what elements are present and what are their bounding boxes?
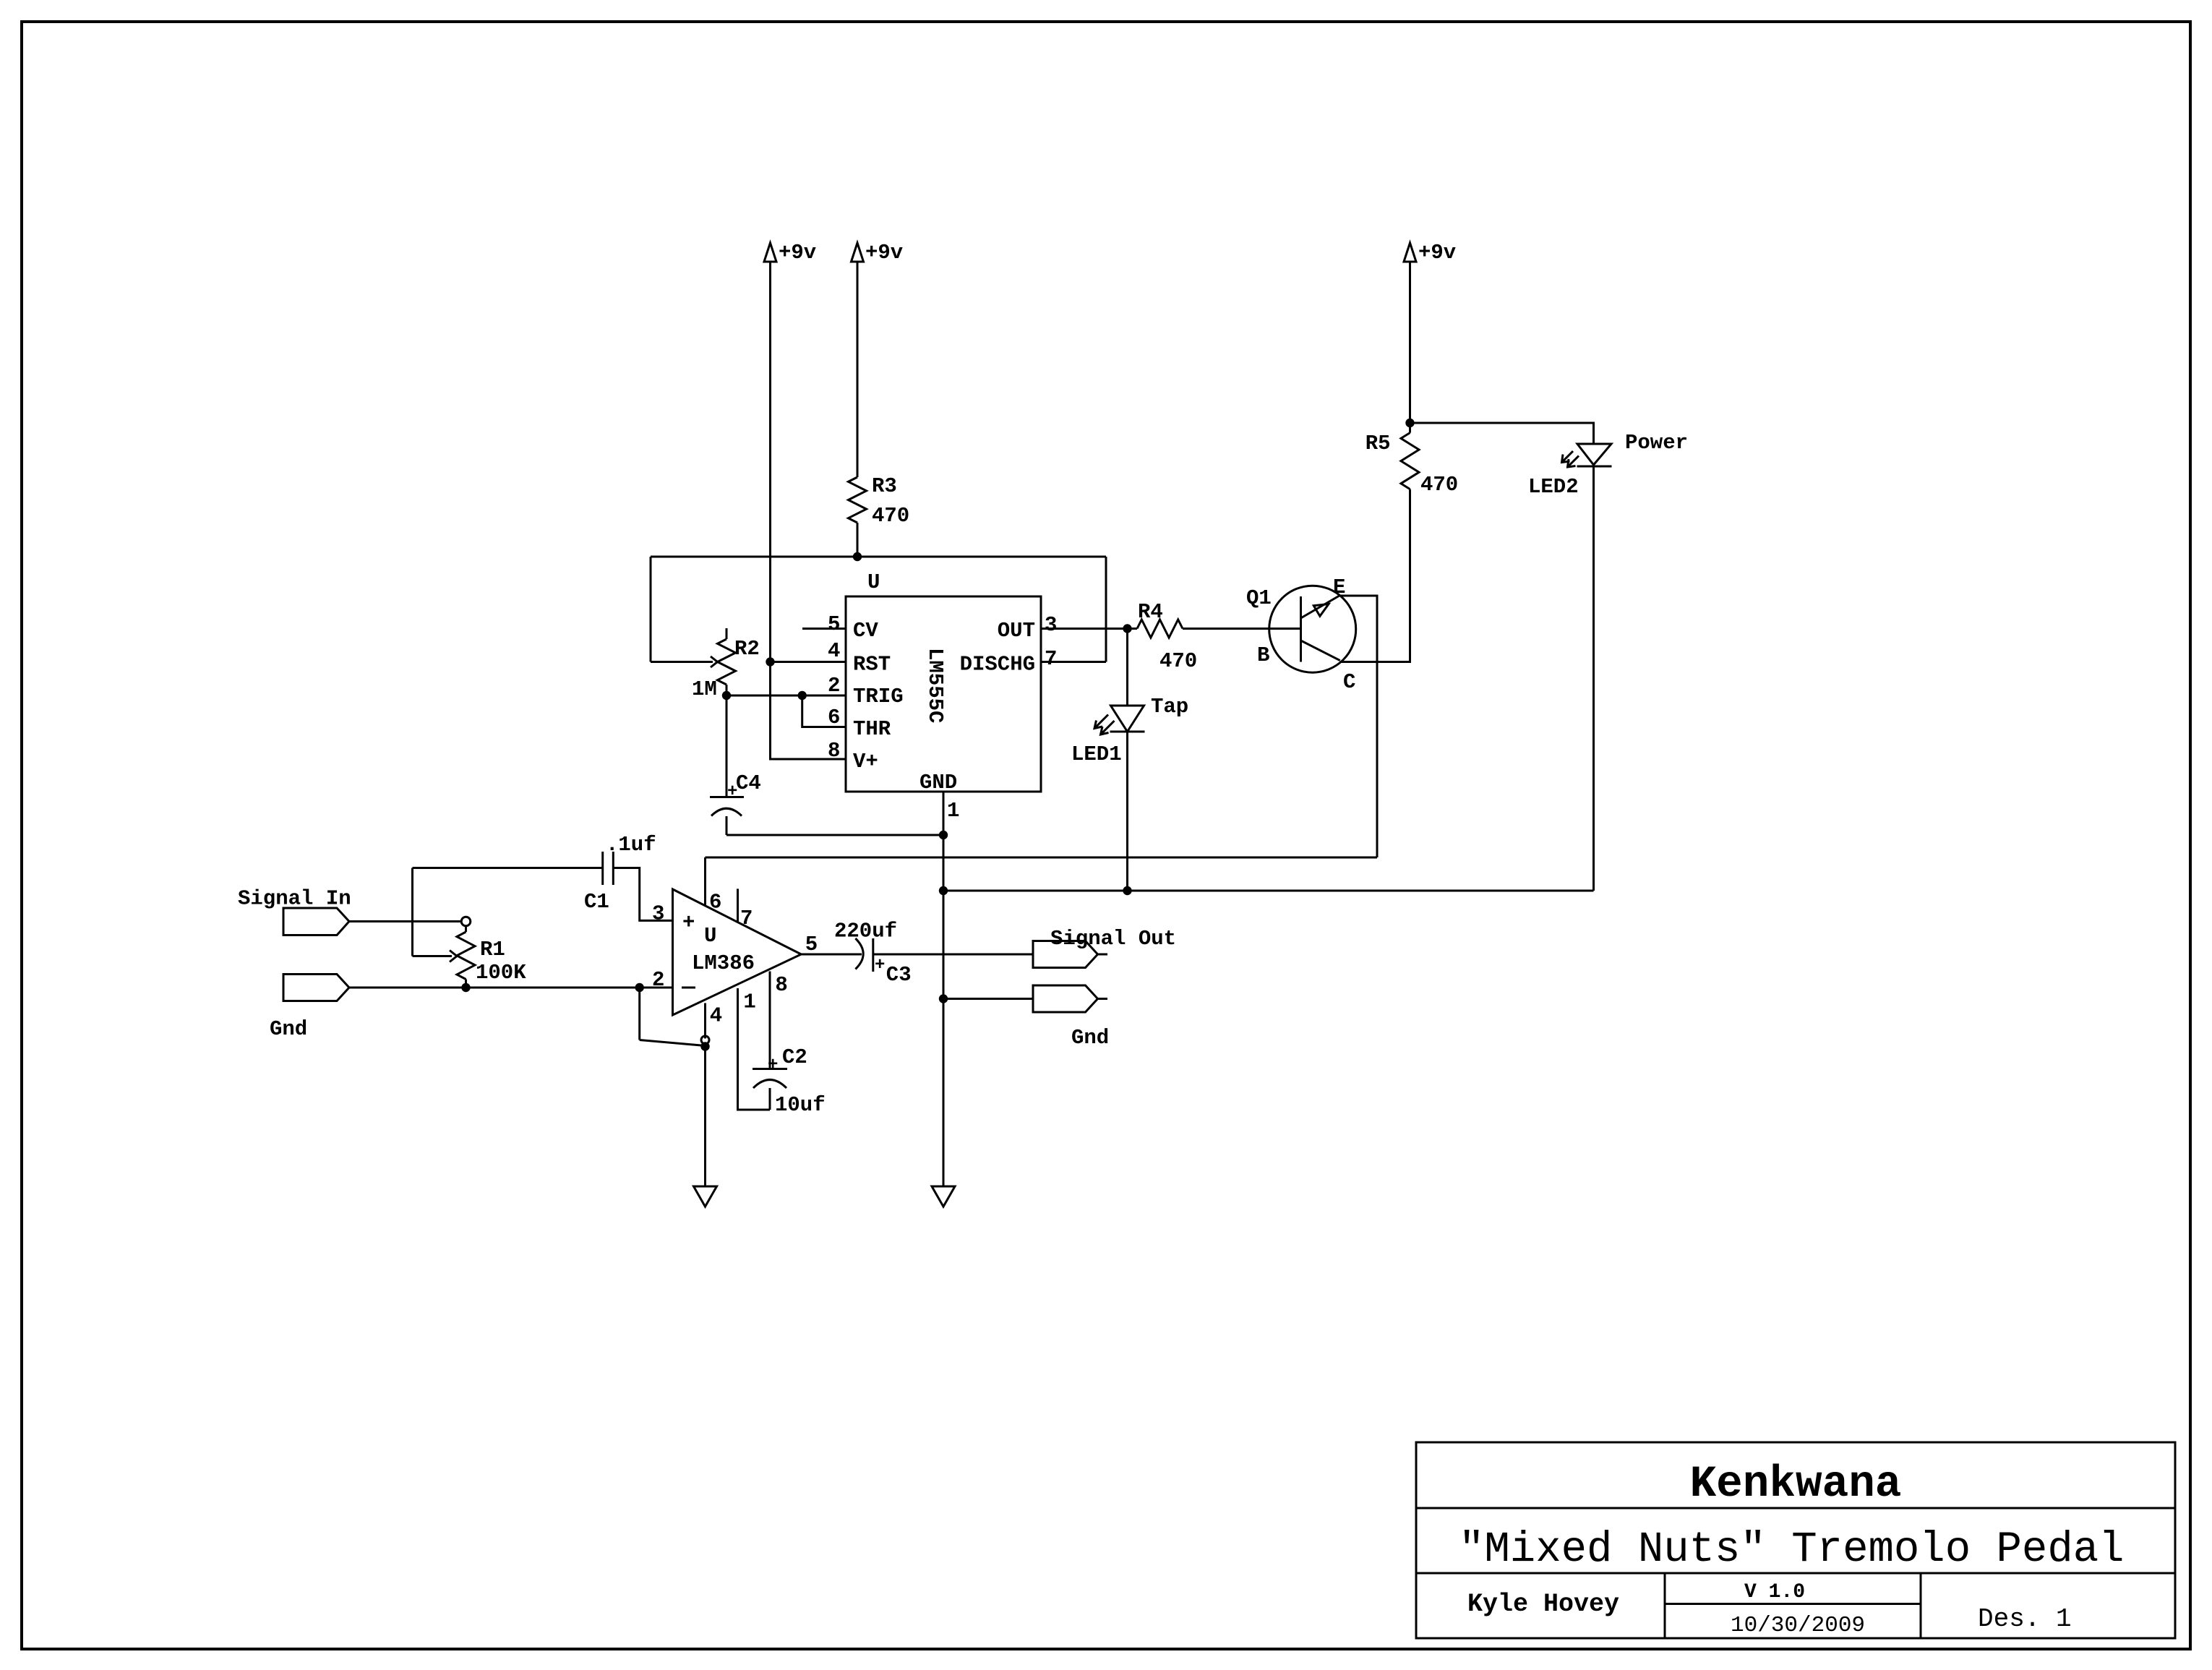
ground symbol left xyxy=(694,1186,717,1207)
wire C4 to GND net xyxy=(726,834,943,836)
svg-text:470: 470 xyxy=(1420,473,1458,497)
svg-text:C3: C3 xyxy=(886,963,912,987)
wire Signal In to R1 xyxy=(349,920,462,922)
title block vertical divider right xyxy=(1920,1573,1922,1638)
svg-text:Tap: Tap xyxy=(1151,695,1188,719)
svg-text:U: U xyxy=(704,924,716,948)
wire OUT pin3 xyxy=(1041,628,1128,630)
wire +9v1 down to V+ corner xyxy=(771,262,846,759)
svg-text:10/30/2009: 10/30/2009 xyxy=(1731,1613,1865,1638)
svg-text:+: + xyxy=(727,782,737,802)
svg-text:R4: R4 xyxy=(1138,600,1163,624)
connector Gnd left xyxy=(270,975,349,1042)
capacitor C1 xyxy=(584,833,656,914)
svg-text:Gnd: Gnd xyxy=(270,1017,307,1041)
title block outline xyxy=(1416,1442,2175,1638)
node R5/LED2 junction xyxy=(1405,419,1414,427)
transistor Q1 xyxy=(1246,575,1356,694)
svg-text:U: U xyxy=(867,570,880,594)
wire LED1 anode xyxy=(1126,629,1128,706)
IC U LM555C box xyxy=(846,570,1041,795)
LED LED1 xyxy=(1071,695,1188,766)
svg-text:+: + xyxy=(768,1055,778,1075)
node R1 bottom / Gnd rail xyxy=(461,983,470,992)
capacitor C4 xyxy=(710,695,761,835)
node R3/box junction xyxy=(853,552,862,561)
svg-text:.1uf: .1uf xyxy=(606,833,656,857)
connector Gnd right xyxy=(1033,985,1109,1050)
wire LED2 cathode down xyxy=(1592,466,1595,891)
svg-text:C: C xyxy=(1343,670,1355,694)
svg-text:LM555C: LM555C xyxy=(923,648,947,723)
wire LED2 top feed xyxy=(1410,423,1594,444)
node GND/bottom-rail junction xyxy=(939,886,948,895)
svg-text:LED2: LED2 xyxy=(1528,475,1579,499)
svg-text:4: 4 xyxy=(828,639,840,663)
svg-text:6: 6 xyxy=(709,890,721,914)
wire diagonal to pin4 xyxy=(640,1040,706,1046)
node LED1/bottom-rail junction xyxy=(1123,886,1131,895)
node pin2 junction xyxy=(635,983,644,992)
svg-text:Kyle Hovey: Kyle Hovey xyxy=(1467,1590,1619,1619)
capacitor C3 xyxy=(834,919,912,987)
svg-text:+9v: +9v xyxy=(1418,241,1456,265)
ground symbol center xyxy=(932,1186,955,1207)
op-amp U LM386 xyxy=(673,889,802,1015)
svg-text:Signal Out: Signal Out xyxy=(1050,927,1176,951)
title block row divider 2 xyxy=(1416,1572,2175,1575)
svg-text:470: 470 xyxy=(1159,649,1197,673)
svg-text:8: 8 xyxy=(828,739,840,763)
wire THR jog xyxy=(802,695,846,727)
LED LED2 xyxy=(1528,431,1688,499)
svg-text:V+: V+ xyxy=(853,750,878,774)
svg-text:+9v: +9v xyxy=(865,241,903,265)
svg-text:5: 5 xyxy=(805,933,818,956)
wire +9v2 down to R3 xyxy=(857,262,859,477)
svg-text:C4: C4 xyxy=(736,771,761,795)
wire C3 to Signal Out xyxy=(873,954,1033,956)
svg-text:DISCHG: DISCHG xyxy=(960,653,1035,677)
wire R2 wiper feed with arrowhead xyxy=(651,656,718,667)
pin4 open circle xyxy=(701,1036,709,1044)
svg-text:Q1: Q1 xyxy=(1246,586,1272,610)
svg-text:6: 6 xyxy=(828,706,840,729)
svg-text:3: 3 xyxy=(1045,613,1057,637)
wire pin7 stub xyxy=(737,888,739,922)
svg-text:470: 470 xyxy=(872,504,909,528)
svg-text:220uf: 220uf xyxy=(834,919,897,943)
svg-text:10uf: 10uf xyxy=(775,1093,826,1117)
svg-text:C2: C2 xyxy=(782,1045,807,1069)
svg-text:R1: R1 xyxy=(480,938,505,962)
wire LED1 cathode down xyxy=(1126,732,1128,891)
resistor R5 xyxy=(1366,432,1459,497)
node GND/Gnd-connector junction xyxy=(939,994,948,1003)
svg-text:LM386: LM386 xyxy=(692,951,755,975)
wire Q1 emitter xyxy=(1339,596,1377,857)
svg-text:1: 1 xyxy=(743,990,755,1014)
wire R3 bottom stub xyxy=(857,523,859,557)
connector Signal In xyxy=(238,887,351,935)
wire pin6 stub to rail xyxy=(704,857,706,906)
wire 555 pin1 GND down xyxy=(943,792,945,1186)
node TRIG/THR junction xyxy=(798,691,807,700)
svg-text:5: 5 xyxy=(828,612,840,636)
wire Vs rail to Q1 emitter xyxy=(706,857,1378,859)
wire discharge box left edge xyxy=(650,557,652,662)
TITLEBLOCK xyxy=(1416,1442,2175,1638)
svg-text:R3: R3 xyxy=(872,474,897,498)
svg-text:1: 1 xyxy=(947,799,959,823)
wire bottom rail xyxy=(943,890,1594,892)
wire pin2 branch down xyxy=(638,988,640,1040)
svg-text:7: 7 xyxy=(740,907,753,930)
wire R4 to Q1 base xyxy=(1183,628,1301,630)
wire Gnd rail to pin2 xyxy=(349,987,673,989)
svg-text:"Mixed Nuts" Tremolo Pedal: "Mixed Nuts" Tremolo Pedal xyxy=(1459,1525,2125,1574)
node OUT/R4/LED1 junction xyxy=(1123,624,1131,633)
wire pin4 stub xyxy=(704,1003,706,1039)
wire discharge box top edge xyxy=(651,556,1106,558)
svg-text:3: 3 xyxy=(652,902,664,926)
svg-text:Des. 1: Des. 1 xyxy=(1978,1604,2072,1634)
wire pin5 out xyxy=(801,954,862,956)
wire pin1 stub xyxy=(738,988,771,1110)
resistor R3 xyxy=(849,474,910,528)
svg-text:2: 2 xyxy=(828,674,840,698)
svg-text:+: + xyxy=(682,911,695,935)
svg-text:2: 2 xyxy=(652,968,664,992)
wire C1 branch vertical xyxy=(411,868,413,956)
wire C1 to pin3 xyxy=(613,868,672,921)
title block row divider 1 xyxy=(1416,1507,2175,1510)
node R2 bottom / TRIG xyxy=(722,691,731,700)
svg-text:8: 8 xyxy=(775,973,787,997)
wire discharge box right edge xyxy=(1105,557,1107,662)
svg-text:C1: C1 xyxy=(584,890,609,914)
wire pin8 stub xyxy=(769,972,771,1069)
wire TRIG line xyxy=(726,695,846,697)
wire Q1 collector xyxy=(1340,489,1410,662)
title block version/date divider xyxy=(1665,1603,1921,1605)
wire Gnd right stub xyxy=(943,998,1033,1000)
svg-text:+9v: +9v xyxy=(779,241,816,265)
svg-text:Signal In: Signal In xyxy=(238,887,351,911)
+9v supply symbol 3 xyxy=(1404,241,1456,265)
svg-text:V 1.0: V 1.0 xyxy=(1744,1581,1805,1603)
node pin4 junction xyxy=(700,1042,709,1050)
wire RST line xyxy=(771,661,846,663)
svg-text:R2: R2 xyxy=(734,637,760,661)
svg-text:+: + xyxy=(875,956,885,975)
resistor R4 xyxy=(1128,600,1198,673)
svg-text:R5: R5 xyxy=(1366,432,1391,455)
node RST/+9v junction xyxy=(766,657,774,666)
svg-text:1M: 1M xyxy=(692,677,717,701)
svg-text:7: 7 xyxy=(1045,647,1057,671)
svg-text:CV: CV xyxy=(853,619,878,643)
wire DISCHG pin7 xyxy=(1041,661,1106,663)
capacitor C2 xyxy=(753,1045,826,1117)
svg-text:GND: GND xyxy=(919,771,957,795)
title block vertical divider left xyxy=(1664,1573,1666,1638)
node GND/C4 junction xyxy=(939,831,948,839)
svg-text:TRIG: TRIG xyxy=(853,685,904,708)
+9v supply symbol 1 xyxy=(764,241,816,265)
svg-text:THR: THR xyxy=(853,717,891,741)
svg-text:OUT: OUT xyxy=(998,619,1035,643)
svg-text:Gnd: Gnd xyxy=(1071,1026,1109,1050)
wire +9v3 down xyxy=(1409,262,1411,433)
potentiometer R2 xyxy=(692,628,760,701)
svg-text:Kenkwana: Kenkwana xyxy=(1690,1460,1902,1510)
wire C1 top feed xyxy=(413,867,603,869)
svg-text:B: B xyxy=(1257,643,1269,667)
svg-text:RST: RST xyxy=(853,653,891,677)
svg-text:LED1: LED1 xyxy=(1071,742,1122,766)
wire R1 wiper feed with arrowhead xyxy=(413,951,458,962)
wire CV stub pin5 xyxy=(802,628,846,630)
+9v supply symbol 2 xyxy=(852,241,904,265)
svg-text:4: 4 xyxy=(710,1004,722,1028)
potentiometer R1 xyxy=(457,917,526,988)
svg-text:100K: 100K xyxy=(476,961,526,985)
wire pin4 to ground xyxy=(704,1046,706,1187)
svg-text:Power: Power xyxy=(1625,431,1688,455)
connector Signal Out xyxy=(1033,927,1176,968)
